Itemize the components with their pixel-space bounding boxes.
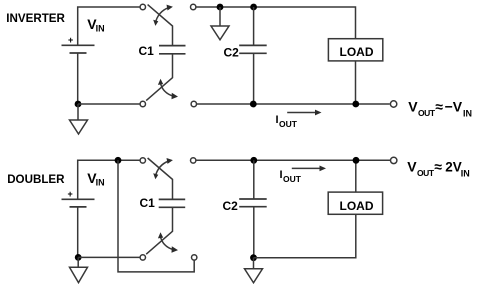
wire bottom rail left doubler (78, 256, 140, 258)
wire top rail right doubler (196, 159, 391, 161)
junction C2 top doubler (250, 157, 257, 164)
svg-text:IN: IN (461, 168, 470, 178)
switch S3 motion arrow (153, 158, 173, 179)
wire LOAD top lead doubler (355, 160, 357, 192)
svg-text:LOAD: LOAD (340, 45, 374, 59)
battery V1 plate long (62, 44, 95, 46)
switch S4 motion arrow (158, 232, 178, 253)
switch S2b throw contact (191, 101, 196, 106)
load box LOAD doubler (328, 192, 382, 214)
ground (doubler battery) (70, 267, 88, 282)
wire C2 bottom lead doubler (253, 207, 255, 258)
wire bottom rail right (197, 103, 390, 105)
capacitor C1 doubler (159, 199, 186, 207)
arrow IOUT doubler (292, 166, 326, 172)
ground (top rail) (211, 26, 229, 40)
label VIN doubler (87, 170, 104, 188)
label VOUT = -VIN (408, 99, 472, 119)
svg-text:−V: −V (445, 99, 463, 115)
junction VIN tap (115, 157, 122, 164)
wire LOAD bottom lead (355, 61, 357, 104)
switch S3b throw contact (191, 158, 196, 163)
switch S4 contact circle (140, 255, 145, 260)
junction battery-ground doubler (75, 254, 82, 261)
wire C2 top lead (253, 7, 255, 45)
switch S4b throw contact (192, 255, 197, 260)
junction C2 bottom (250, 101, 257, 108)
svg-text:2V: 2V (445, 159, 462, 174)
wire battery negative to bottom rail (77, 53, 79, 104)
wire VIN tap to lower throw (118, 160, 194, 272)
svg-text:+: + (68, 35, 73, 45)
capacitor C2 doubler (239, 199, 267, 207)
terminal VOUT (390, 101, 396, 107)
svg-text:C2: C2 (223, 199, 239, 213)
wire ground stub doubler right (253, 258, 255, 269)
svg-text:OUT: OUT (283, 174, 302, 184)
switch S1 blade (148, 5, 173, 45)
svg-text:INVERTER: INVERTER (6, 12, 65, 25)
switch S1b throw contact (191, 4, 196, 9)
wire C1 bottom to switch S4 (146, 207, 172, 254)
svg-text:OUT: OUT (418, 108, 436, 118)
switch S3 contact circle (140, 158, 145, 163)
wire bottom rail right doubler (254, 214, 356, 257)
label VOUT = 2VIN (407, 158, 470, 178)
switch S1 contact circle (140, 4, 145, 9)
svg-text:IN: IN (96, 178, 105, 188)
junction LOAD top doubler (353, 157, 360, 164)
load box LOAD (328, 39, 382, 61)
junction battery-ground node (75, 101, 82, 108)
wire top rail left (battery to switch S1) (78, 7, 141, 45)
svg-text:C2: C2 (224, 46, 240, 60)
ground (battery) (70, 120, 88, 134)
label IOUT doubler (280, 169, 302, 184)
wire C2 bottom lead (253, 53, 255, 104)
svg-text:V: V (407, 158, 417, 174)
svg-text:C1: C1 (139, 44, 155, 58)
wire battery negative to bottom rail doubler (77, 207, 79, 258)
switch S1 motion arrow (153, 5, 173, 26)
terminal VOUT doubler (391, 157, 397, 163)
svg-text:OUT: OUT (279, 119, 298, 129)
switch S2 motion arrow (158, 79, 178, 100)
junction C2 top (250, 4, 257, 11)
svg-text:IN: IN (463, 108, 472, 118)
switch S3 blade (148, 158, 173, 199)
svg-text:≈: ≈ (434, 158, 442, 174)
svg-text:V: V (408, 99, 418, 115)
junction top ground tap (217, 4, 224, 11)
svg-text:≈: ≈ (435, 99, 443, 115)
svg-text:+: + (68, 189, 73, 199)
battery V2 plate short (70, 206, 87, 208)
wire top rail left doubler (78, 160, 141, 199)
svg-text:C1: C1 (140, 196, 156, 210)
arrow IOUT (287, 110, 321, 116)
svg-text:DOUBLER: DOUBLER (7, 173, 65, 186)
battery V1 plate short (70, 52, 87, 54)
label VIN (87, 16, 104, 34)
svg-text:IN: IN (96, 24, 105, 34)
wire C2 top lead doubler (253, 160, 255, 199)
svg-text:OUT: OUT (417, 168, 435, 178)
wire ground stub top (219, 7, 221, 26)
svg-text:LOAD: LOAD (340, 199, 374, 213)
wire bottom rail left (78, 103, 140, 105)
capacitor C2 (239, 45, 267, 53)
battery V2 plate long (62, 198, 95, 200)
switch S2 contact circle (140, 101, 145, 106)
wire C1 bottom to switch S2 (146, 54, 172, 101)
junction C2 ground doubler (250, 254, 257, 261)
ground (doubler output) (245, 269, 263, 283)
wire top rail right (196, 7, 356, 39)
capacitor C1 (159, 46, 186, 54)
label IOUT (276, 114, 298, 129)
junction LOAD bottom (352, 101, 359, 108)
wire ground stub doubler battery (77, 257, 79, 267)
wire ground stub (77, 104, 79, 120)
